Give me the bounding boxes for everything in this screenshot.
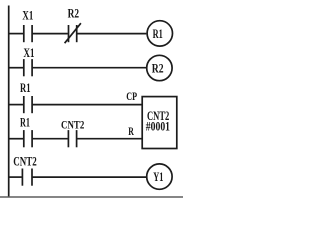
svg-text:R2: R2 bbox=[152, 61, 164, 76]
bottom rule bbox=[0, 196, 183, 198]
wire rung4 rail to R1 bbox=[9, 138, 24, 140]
wire rung2 X1 to coil R2 bbox=[33, 67, 146, 69]
counter box CNT2 #0001 bbox=[142, 97, 177, 149]
wire rung1 X1 to R2 bbox=[33, 33, 68, 35]
svg-text:R1: R1 bbox=[20, 115, 30, 130]
contact X1 rung1 bbox=[24, 25, 32, 42]
svg-text:X1: X1 bbox=[22, 7, 33, 22]
contact CNT2 rung5 bbox=[22, 169, 32, 186]
left power rail bbox=[8, 6, 10, 197]
wire rung5 rail to CNT2 contact bbox=[9, 176, 22, 178]
wire rung4 CNT2 contact to counter R input bbox=[77, 138, 142, 140]
wire rung5 CNT2 to coil Y1 bbox=[33, 176, 147, 178]
coil R2 bbox=[147, 55, 172, 80]
coil R1 bbox=[147, 21, 172, 46]
svg-text:R1: R1 bbox=[153, 26, 163, 41]
contact X1 rung2 bbox=[24, 59, 32, 76]
svg-text:CP: CP bbox=[126, 89, 137, 103]
wire rung4 R1 to CNT2 contact bbox=[33, 138, 68, 140]
svg-text:X1: X1 bbox=[24, 45, 35, 60]
svg-text:Y1: Y1 bbox=[153, 169, 163, 184]
wire rung3 rail to R1 bbox=[9, 104, 24, 106]
contact R1 rung4 bbox=[24, 130, 32, 147]
contact R2 (NC) rung1 bbox=[65, 23, 81, 43]
svg-text:CNT2: CNT2 bbox=[61, 117, 84, 131]
wire rung1 R2 to coil R1 bbox=[77, 33, 146, 35]
contact CNT2 rung4 bbox=[68, 130, 76, 147]
svg-text:R2: R2 bbox=[68, 6, 79, 21]
svg-text:#0001: #0001 bbox=[146, 118, 170, 133]
svg-text:R1: R1 bbox=[20, 80, 31, 95]
coil Y1 bbox=[147, 164, 172, 189]
wire rung3 R1 to counter CP input bbox=[33, 104, 142, 106]
svg-text:R: R bbox=[128, 124, 134, 138]
wire rung1 rail to X1 bbox=[9, 33, 24, 35]
wire rung2 rail to X1 bbox=[9, 67, 24, 69]
svg-text:CNT2: CNT2 bbox=[13, 153, 37, 168]
contact R1 rung3 bbox=[24, 96, 32, 113]
